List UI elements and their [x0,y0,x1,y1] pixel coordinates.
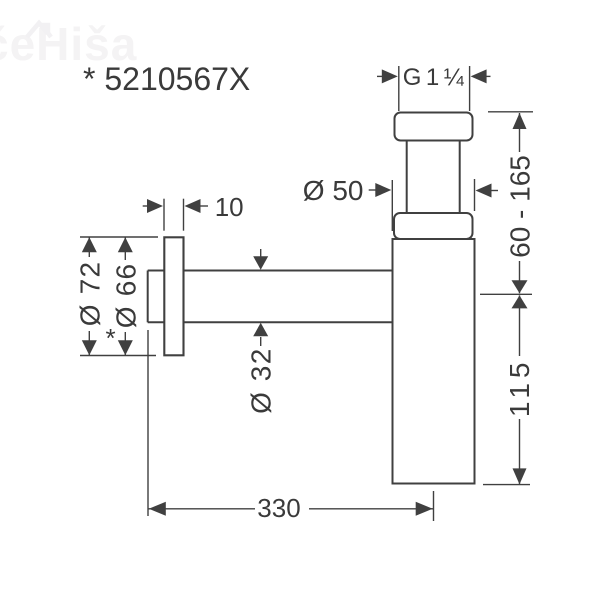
svg-text:G1¼: G1¼ [403,64,469,91]
svg-text:*: * [106,323,116,353]
svg-text:60 - 165: 60 - 165 [505,155,536,258]
svg-text:10: 10 [215,192,244,222]
svg-text:* 5210567X: * 5210567X [83,61,250,97]
svg-text:Ø 50: Ø 50 [303,175,364,206]
svg-text:115: 115 [504,357,535,417]
svg-text:Ø 32: Ø 32 [246,347,277,414]
svg-text:330: 330 [257,493,300,523]
svg-text:Ø 72: Ø 72 [74,261,105,327]
svg-text:Ø 66: Ø 66 [110,263,141,329]
